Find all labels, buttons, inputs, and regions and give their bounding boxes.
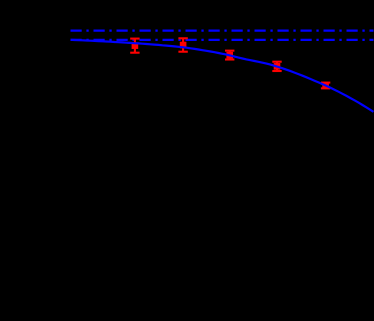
error bar point 3 bbox=[225, 51, 234, 60]
error bar point 1 bbox=[130, 39, 139, 53]
upper dash-dot reference line bbox=[71, 30, 374, 32]
error bar point 2 bbox=[178, 38, 187, 51]
error bar point 4 bbox=[272, 62, 281, 71]
error bar point 5 bbox=[321, 82, 330, 89]
efficiency fit curve bbox=[71, 40, 374, 112]
lower dash-dot reference line bbox=[71, 39, 374, 41]
